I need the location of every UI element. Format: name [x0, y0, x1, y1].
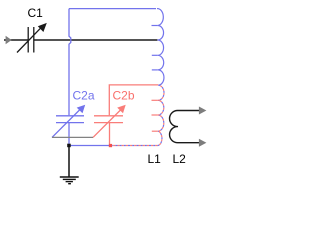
arrow head of C1: [38, 23, 47, 32]
wire blue top rail: [69, 8, 156, 10]
junction black: [67, 144, 71, 148]
inductor L1 lower half (blue dashes): [112, 85, 164, 145]
L1 red winding tick 2: [152, 114, 158, 116]
svg-text:L2: L2: [173, 152, 187, 166]
wire antenna input to coil tap: [4, 39, 28, 41]
wire C2a bottom lead: [68, 123, 70, 144]
ground lead: [68, 147, 70, 177]
L1 red winding tick 3: [152, 130, 158, 132]
inductor L1 upper half (blue loops): [157, 9, 164, 86]
input arrow: [6, 36, 12, 44]
inductor L2: [170, 110, 199, 142]
L1 red winding tick 1: [152, 99, 158, 101]
capacitor C1: [17, 27, 41, 53]
L2 output arrow bottom: [199, 139, 207, 147]
gang link C2a-C2b: [52, 136, 93, 138]
wire bottom blue rail: [69, 145, 110, 147]
capacitor C2a: [52, 110, 84, 138]
arrow head of C2a: [77, 105, 86, 114]
capacitor C2b: [93, 110, 123, 137]
arrow head of C2b: [117, 105, 126, 114]
wire C1 to coil tap: [34, 39, 158, 41]
L1 blue winding tick 2: [152, 54, 158, 56]
L1 blue winding tick 1: [152, 25, 158, 27]
junction red: [109, 144, 112, 147]
svg-text:C2b: C2b: [113, 89, 135, 103]
svg-text:C2a: C2a: [73, 89, 95, 103]
wire C2b bottom lead: [109, 123, 111, 144]
wire blue left rail with hop over black wire: [69, 9, 71, 116]
ground: [60, 177, 79, 184]
wire red from C2b up to coil: [109, 85, 158, 115]
inductor L1 lower half (red dashes): [112, 85, 164, 145]
svg-text:L1: L1: [148, 152, 162, 166]
svg-text:C1: C1: [28, 6, 44, 20]
L1 blue winding tick 3: [152, 69, 158, 71]
L2 output arrow top: [199, 107, 207, 115]
